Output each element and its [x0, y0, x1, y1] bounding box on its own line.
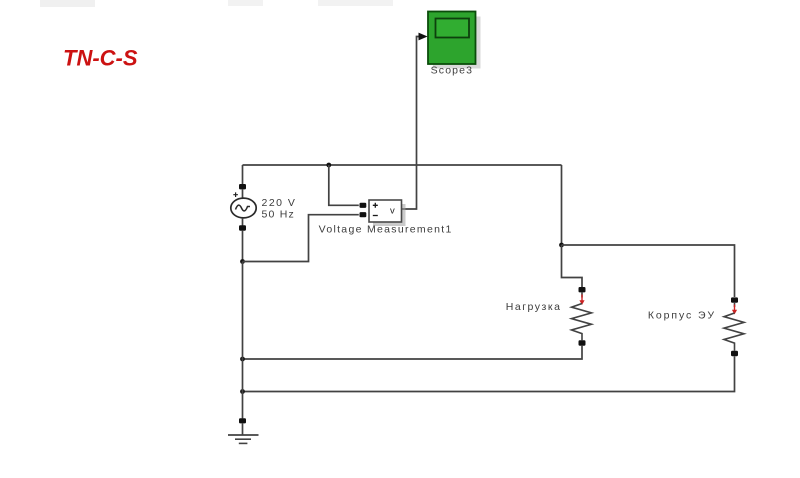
wire R2 bottom to PE bus [243, 356, 735, 391]
port terminal R1 bottom [579, 340, 586, 345]
wire branch to VM plus input [329, 165, 359, 205]
faint toolbar ghost smudge middle [228, 0, 263, 6]
node junction neutral [240, 259, 245, 264]
wire R2 top stem [734, 303, 736, 307]
plus sign of source [233, 192, 238, 197]
port terminal source + [239, 184, 246, 189]
wire R1 bottom to neutral [243, 346, 583, 359]
faint toolbar ghost smudge right [318, 0, 393, 6]
svg-text:v: v [390, 206, 395, 217]
svg-text:Корпус ЭУ: Корпус ЭУ [648, 309, 716, 321]
wire phase down right side [561, 165, 563, 245]
node junction neutral load [240, 357, 245, 362]
arrowhead into Scope3 [419, 33, 428, 41]
wire VM output to Scope3 [402, 37, 421, 210]
node junction phase split [559, 243, 564, 248]
svg-text:Нагрузка: Нагрузка [506, 301, 562, 313]
VM minus label [373, 215, 378, 217]
voltage measurement U2 shadow [373, 204, 406, 226]
wire source stem top [242, 189, 244, 198]
wire source bottom lead [242, 231, 244, 262]
port terminal R1 top [579, 287, 586, 292]
port terminal ground [239, 418, 246, 423]
ground symbol [228, 435, 259, 443]
wire neutral down to ground [242, 262, 244, 419]
AC voltage source V1 body [231, 198, 256, 218]
svg-text:50 Hz: 50 Hz [262, 209, 295, 221]
svg-text:Scope3: Scope3 [431, 65, 474, 77]
resistor R1 Nagruzka zigzag [572, 304, 592, 341]
wire source top lead [242, 165, 244, 185]
wire ground stem [242, 423, 244, 435]
wire to load resistor top [562, 245, 583, 287]
wire top bus (phase) [243, 164, 562, 166]
port terminal source - [239, 225, 246, 230]
faint toolbar ghost smudge left [40, 0, 95, 7]
wire R1 top stem [581, 292, 583, 297]
red arrow R1 [579, 295, 584, 306]
wire to Korpus resistor top [562, 245, 735, 297]
voltage measurement U2 body [369, 200, 402, 222]
red arrow R2 [732, 305, 737, 315]
scope U1 Scope3 body [428, 12, 476, 65]
port terminal R2 bottom [731, 351, 738, 356]
node junction PE [240, 389, 245, 394]
port terminal VM plus [360, 203, 367, 208]
svg-text:Voltage Measurement1: Voltage Measurement1 [319, 224, 453, 236]
resistor R2 Korpus EU zigzag [724, 313, 744, 351]
svg-text:TN-C-S: TN-C-S [63, 46, 138, 71]
wire neutral to VM minus input [243, 215, 359, 262]
node junction on top bus [326, 163, 331, 168]
svg-text:220 V: 220 V [262, 197, 297, 209]
scope U1 screen [436, 19, 470, 38]
scope U1 Scope3 shadow [433, 17, 481, 69]
port terminal R2 top [731, 297, 738, 302]
VM plus label [373, 203, 378, 208]
port terminal VM minus [360, 212, 367, 217]
wire source stem bottom [242, 218, 244, 226]
AC source sine symbol [236, 205, 251, 211]
